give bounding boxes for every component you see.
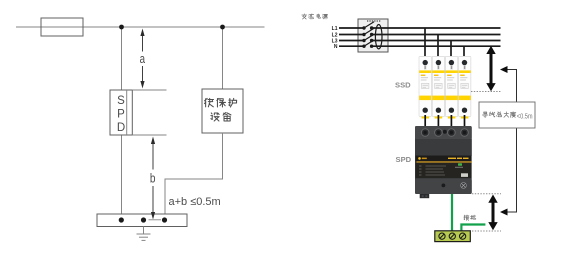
svg-text:P: P — [117, 109, 125, 121]
svg-text:b: b — [150, 172, 156, 186]
svg-text:SSD: SSD — [395, 80, 411, 89]
svg-text:N: N — [334, 44, 338, 50]
svg-text:L1: L1 — [332, 26, 338, 32]
svg-text:S: S — [117, 95, 125, 107]
svg-text:SPD: SPD — [396, 155, 412, 164]
svg-text:D: D — [117, 122, 125, 134]
svg-text:a+b ≤0.5m: a+b ≤0.5m — [169, 196, 221, 208]
svg-text:<0.5m: <0.5m — [517, 113, 533, 120]
svg-text:a: a — [140, 52, 145, 66]
